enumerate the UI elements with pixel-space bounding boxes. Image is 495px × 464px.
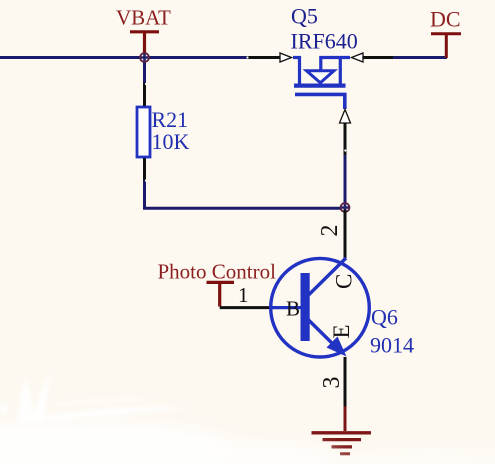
pin arrow Q5 gate (up) xyxy=(340,110,351,124)
svg-text:2: 2 xyxy=(317,225,343,237)
port Photo Control symbol xyxy=(207,282,235,306)
pin R21 top xyxy=(143,83,146,106)
svg-text:1: 1 xyxy=(238,283,249,307)
svg-text:9014: 9014 xyxy=(370,333,414,358)
svg-text:3: 3 xyxy=(319,377,345,389)
power port VBAT xyxy=(116,6,171,57)
svg-text:IRF640: IRF640 xyxy=(291,29,358,54)
transistor Q6 emitter arrow xyxy=(327,337,347,357)
pin arrow Q5 left xyxy=(280,53,292,62)
ground bar 1 xyxy=(312,431,372,434)
svg-text:Q6: Q6 xyxy=(371,305,398,330)
pin arrow Q5 right xyxy=(352,53,364,62)
transistor Q6 base bar xyxy=(301,273,310,341)
wire VBAT junction down to R21 xyxy=(143,56,146,84)
transistor Q5 MOSFET body xyxy=(293,58,350,110)
transistor Q6 emitter stroke xyxy=(306,318,340,352)
transistor Q6 circle xyxy=(271,258,370,357)
wire Q5 gate to node A xyxy=(344,154,347,207)
node A junction at gate/collector xyxy=(340,203,350,213)
svg-text:VBAT: VBAT xyxy=(116,6,171,30)
ground bar 3 xyxy=(332,445,353,448)
svg-text:Q5: Q5 xyxy=(291,4,318,29)
pin Q6 base wire xyxy=(220,306,269,309)
transistor Q6 base lead xyxy=(269,306,301,309)
pin Q6 collector xyxy=(344,210,347,259)
pin end specks xyxy=(145,56,347,181)
resistor R21 xyxy=(137,107,150,157)
transistor Q6 collector stroke xyxy=(306,258,346,298)
svg-text:B: B xyxy=(286,297,300,321)
wire top rail right xyxy=(393,56,447,59)
pin Q6 emitter lower xyxy=(344,357,347,407)
power port DC xyxy=(430,7,461,59)
ground bar 2 xyxy=(323,438,362,441)
pin Q5 drain (right) xyxy=(363,56,393,59)
svg-text:Photo Control: Photo Control xyxy=(158,260,277,284)
wire R21 bottom to node A xyxy=(145,180,346,208)
svg-text:C: C xyxy=(331,274,356,289)
svg-text:DC: DC xyxy=(430,7,461,32)
svg-text:10K: 10K xyxy=(152,129,190,154)
svg-text:E: E xyxy=(329,324,354,338)
node junction at VBAT xyxy=(140,53,150,63)
wire top rail left xyxy=(0,56,247,59)
ground bar 4 xyxy=(340,452,350,455)
pin R21 bottom xyxy=(143,158,146,181)
pin Q5 source (left) xyxy=(247,56,280,59)
ground lead xyxy=(344,407,347,432)
pin Q5 gate lower xyxy=(344,123,347,156)
